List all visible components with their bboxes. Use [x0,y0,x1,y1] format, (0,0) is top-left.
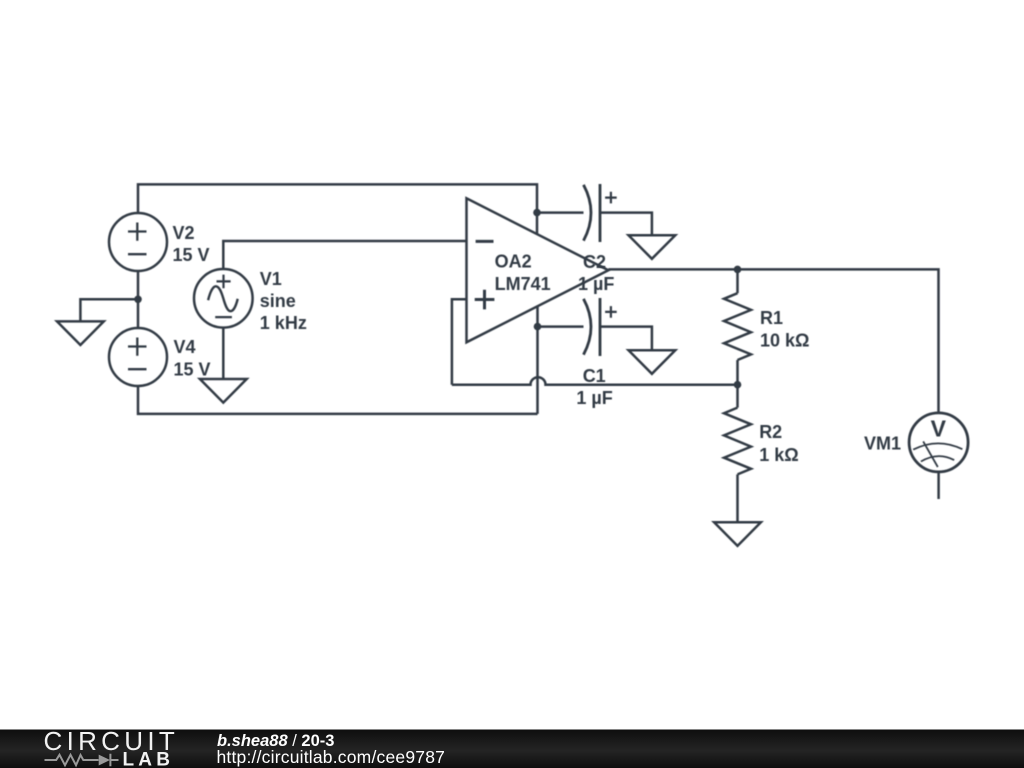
node junction dot [134,296,142,304]
svg-text:V4: V4 [174,337,196,357]
wire top rail V2 to op-amp V+ [138,184,537,234]
svg-text:V1: V1 [260,269,282,289]
op-amp plus input marker [475,290,495,310]
svg-text:15 V: 15 V [173,245,210,265]
node dot output [734,266,742,274]
svg-text:LM741: LM741 [495,274,551,294]
svg-text:OA2: OA2 [495,251,532,271]
capacitor C1 [584,298,617,356]
svg-text:V: V [931,416,947,442]
voltage source V2 [109,213,167,271]
op-amp OA2 [467,198,609,342]
ground [714,522,761,546]
footer bar [0,730,1024,768]
svg-text:1 µF: 1 µF [578,274,614,294]
svg-text:C1: C1 [583,366,606,386]
ground [629,235,676,259]
svg-text:R1: R1 [760,308,783,328]
voltmeter VM1 [909,413,968,472]
wire feedback with hop [452,377,738,384]
wire C2 to ground [600,213,652,236]
wire V1 to ground [222,328,225,379]
node dot feedback [734,381,742,389]
resistor R2 [724,385,751,523]
capacitor C2 [584,184,617,242]
wire C1 to ground [600,327,652,351]
node dot V- [534,323,542,331]
svg-text:1 µF: 1 µF [576,388,612,408]
wire op-amp V- to C1 [538,325,584,328]
voltage source V4 [109,328,167,386]
svg-text:C2: C2 [583,252,606,272]
svg-text:VM1: VM1 [864,434,901,454]
wire output [608,269,938,413]
svg-text:15 V: 15 V [174,359,211,379]
svg-text:http://circuitlab.com/cee9787: http://circuitlab.com/cee9787 [217,747,446,767]
ground [200,379,247,403]
wire V2 to V4 [137,271,140,328]
wire op-amp V- lead [536,306,539,414]
logo resistor-diode glyph [45,754,119,766]
op-amp minus input marker [476,240,494,243]
svg-text:V2: V2 [173,223,195,243]
svg-text:1 kΩ: 1 kΩ [759,445,798,465]
voltage source V1 sine [194,269,253,328]
wire V1 to inverting input [223,241,466,269]
node dot V+ [533,209,541,217]
svg-text:1 kHz: 1 kHz [260,313,307,333]
wire op-amp V+ to C2 [537,211,584,214]
ground [629,350,676,374]
svg-text:LAB: LAB [123,749,175,768]
svg-text:10 kΩ: 10 kΩ [760,331,809,351]
wire to ground left [80,299,138,321]
svg-text:sine: sine [260,291,296,311]
ground [57,321,104,345]
wire VM1 bottom stub [937,472,940,499]
resistor R1 [724,269,751,384]
wire non-inverting input [452,299,467,385]
wire bottom rail V4 to op-amp V- [138,386,538,414]
svg-text:R2: R2 [759,422,782,442]
